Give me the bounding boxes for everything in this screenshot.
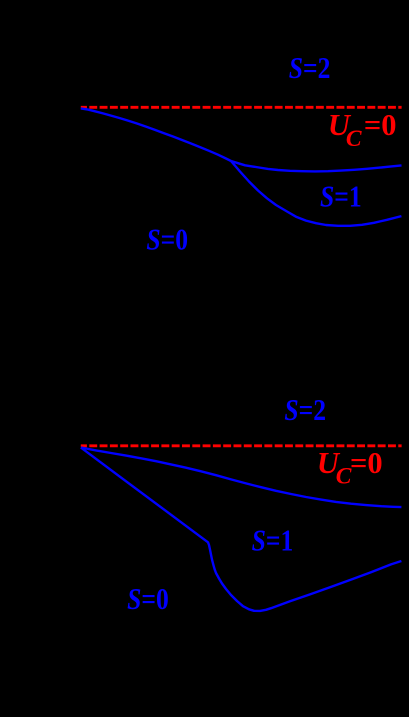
top panel: blue lower branch (S=1 lower boundary) bbox=[231, 161, 401, 226]
top panel: blue upper branch (S=1 upper boundary) bbox=[231, 161, 402, 171]
top panel: blue main curve from origin to branch point bbox=[81, 108, 231, 161]
svg-text:S=1: S=1 bbox=[320, 180, 362, 214]
svg-text:S=0: S=0 bbox=[127, 583, 169, 617]
top panel: red dashed threshold line U_C=0 bbox=[81, 106, 402, 109]
bottom panel: blue lower curve (S=0/S=1 boundary) bbox=[81, 448, 402, 611]
bottom panel: red dashed threshold line U_C=0 bbox=[81, 444, 402, 447]
svg-text:S=2: S=2 bbox=[289, 52, 331, 86]
bottom panel: blue upper curve (S=1 upper boundary) bbox=[81, 448, 402, 508]
svg-text:S=1: S=1 bbox=[252, 524, 294, 558]
svg-text:S=0: S=0 bbox=[146, 224, 188, 258]
svg-text:S=2: S=2 bbox=[284, 394, 326, 428]
